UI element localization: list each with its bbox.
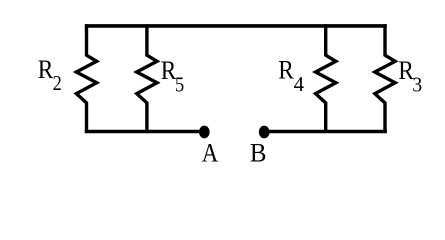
svg-text:B: B	[250, 139, 267, 168]
bottom right wire	[264, 130, 387, 134]
node B terminal dot	[259, 126, 270, 139]
resistor R5	[137, 24, 157, 133]
bottom left wire	[85, 130, 204, 134]
svg-text:3: 3	[412, 72, 422, 96]
resistor R2	[76, 24, 96, 133]
svg-text:5: 5	[175, 73, 184, 97]
svg-text:R: R	[38, 55, 54, 84]
svg-text:4: 4	[294, 72, 305, 96]
resistor R4	[316, 24, 336, 133]
node A terminal dot	[199, 126, 210, 139]
svg-text:R: R	[278, 56, 294, 85]
svg-text:2: 2	[53, 71, 62, 95]
top wire	[85, 24, 387, 28]
resistor R3	[375, 24, 395, 133]
svg-text:A: A	[202, 139, 219, 168]
